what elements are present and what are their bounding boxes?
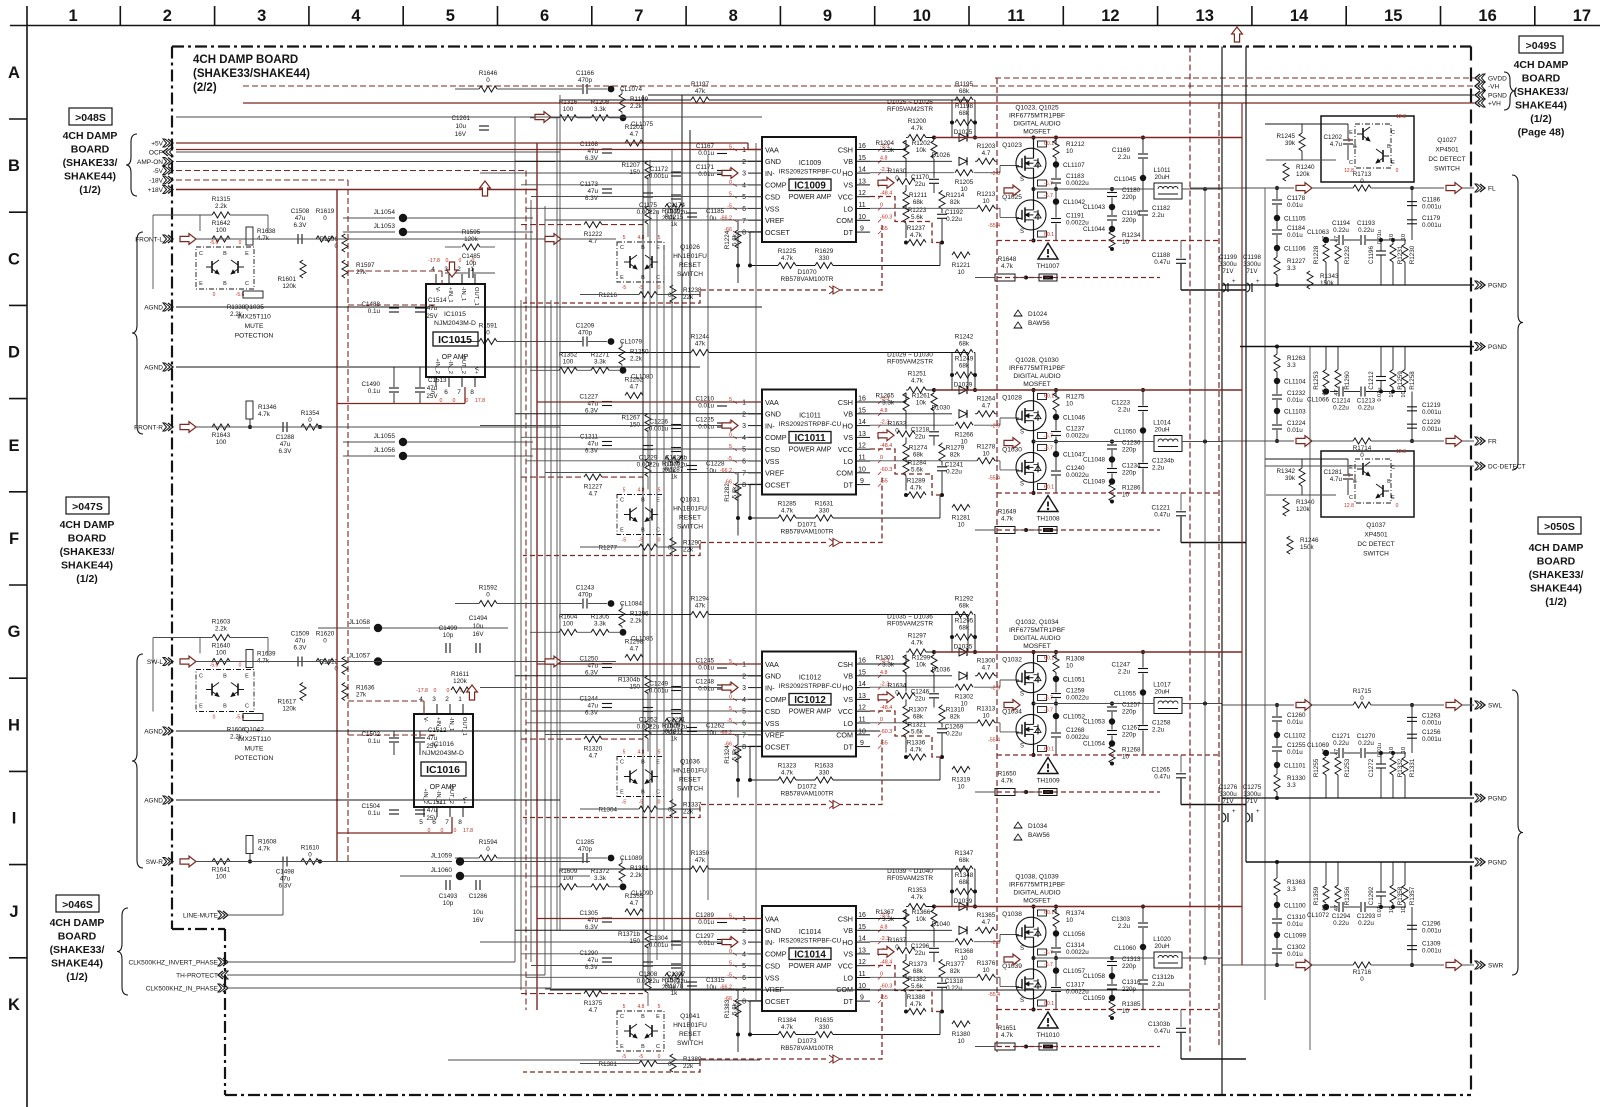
svg-text:82k: 82k <box>950 452 961 459</box>
svg-text:IRS2092STRPBF-CU: IRS2092STRPBF-CU <box>779 938 842 945</box>
pin 13 VS of IC1009 <box>856 184 870 186</box>
svg-text:R1199: R1199 <box>630 96 649 103</box>
pin 5 CSD of IC1011 <box>748 448 762 450</box>
wire COMP pin row <box>521 184 762 186</box>
resistor R1596 vertical <box>342 234 348 252</box>
capacitor C1214 <box>1338 387 1340 397</box>
capacitor C1251 <box>671 709 681 711</box>
svg-text:C: C <box>245 281 249 287</box>
capacitor C1227 electrolytic <box>602 401 612 403</box>
capacitor C1290 electrolytic <box>602 957 612 959</box>
junction CL1101 <box>1274 762 1280 768</box>
svg-text:C1270: C1270 <box>1357 733 1376 740</box>
wire VB row <box>870 413 952 415</box>
svg-text:22k: 22k <box>683 547 694 554</box>
svg-text:CL1050: CL1050 <box>1114 429 1137 436</box>
svg-text:GVDD: GVDD <box>1488 76 1507 83</box>
wire VB row <box>870 160 952 162</box>
svg-text:V+: V+ <box>473 367 479 375</box>
junction CL1084 <box>608 600 615 607</box>
svg-text:R1641: R1641 <box>212 867 231 874</box>
svg-text:5: 5 <box>658 235 661 241</box>
capacitor C1180 <box>1107 192 1117 194</box>
svg-text:R1373: R1373 <box>909 961 928 968</box>
svg-text:R1340: R1340 <box>1296 499 1315 506</box>
svg-text:10: 10 <box>957 522 965 529</box>
ruler left vertical line <box>26 6 28 1107</box>
wire PGND out3 <box>1222 797 1474 799</box>
resistor R1635 <box>815 1032 833 1038</box>
svg-text:0.01u: 0.01u <box>1287 951 1303 958</box>
svg-text:47u: 47u <box>587 188 598 195</box>
junction CL1050 <box>1140 427 1146 433</box>
svg-text:MOSFET: MOSFET <box>1023 381 1050 388</box>
svg-text:-55.4: -55.4 <box>988 992 1000 998</box>
svg-text:R1601: R1601 <box>277 276 296 283</box>
svg-text:C1232: C1232 <box>1287 390 1306 397</box>
pin 8 OCSET of IC1014 <box>748 1000 762 1002</box>
svg-text:K: K <box>8 996 20 1014</box>
pin 15 VB of IC1014 <box>856 929 870 931</box>
svg-text:R1289: R1289 <box>907 478 926 485</box>
capacitor C1246 <box>929 693 939 695</box>
transistor pair Q1042 mute protection <box>196 670 254 712</box>
svg-text:(SHAKE33/: (SHAKE33/ <box>63 157 118 169</box>
capacitor C1229 <box>1407 423 1417 425</box>
svg-text:2.2k: 2.2k <box>215 626 228 633</box>
svg-text:C1218: C1218 <box>911 427 930 434</box>
svg-text:R1631: R1631 <box>815 501 834 508</box>
svg-text:60.1: 60.1 <box>1044 747 1054 753</box>
svg-text:R1201: R1201 <box>625 124 644 131</box>
svg-text:IMX25T110: IMX25T110 <box>237 314 271 321</box>
capacitor C1243 <box>582 599 584 609</box>
svg-text:D: D <box>8 344 20 362</box>
wire COMP pin row <box>521 436 762 438</box>
wire LINE-MUTE <box>227 914 283 916</box>
resistor R1380 <box>952 1021 970 1027</box>
svg-text:9: 9 <box>860 226 864 233</box>
svg-text:4.8: 4.8 <box>880 924 888 930</box>
svg-text:10: 10 <box>957 269 965 276</box>
wire CSH row <box>870 149 906 151</box>
svg-text:0.001u: 0.001u <box>1422 409 1442 416</box>
svg-text:CL1059: CL1059 <box>1083 995 1106 1002</box>
wire FL segment <box>1190 187 1222 189</box>
svg-text:0.001u: 0.001u <box>649 173 669 180</box>
pin 5 +IN_2 of IC1015 <box>435 377 437 387</box>
svg-text:C1209: C1209 <box>576 323 595 330</box>
svg-text:FRONT-L: FRONT-L <box>135 237 163 244</box>
svg-text:CL1043: CL1043 <box>1083 204 1106 211</box>
capacitor C1169 <box>1138 153 1148 155</box>
bus vertical -18V mute x348 dashed <box>347 180 349 862</box>
resistor R1716 <box>1353 962 1371 968</box>
svg-text:R1649: R1649 <box>998 509 1017 516</box>
svg-text:0.47u: 0.47u <box>1154 774 1170 781</box>
svg-text:10p: 10p <box>443 632 454 639</box>
wire OCSET vertical <box>738 745 762 747</box>
svg-text:(1/2): (1/2) <box>1545 596 1567 608</box>
svg-text:C1271: C1271 <box>1332 733 1351 740</box>
ruler top tick 1 <box>119 6 121 26</box>
svg-text:R1595: R1595 <box>462 229 481 236</box>
svg-text:10: 10 <box>1401 234 1407 240</box>
capacitor C1296 <box>1407 924 1417 926</box>
svg-text:7: 7 <box>742 732 746 739</box>
svg-text:S: S <box>1020 177 1024 183</box>
pin 10 COM of IC1014 <box>856 988 870 990</box>
resistor R1348 <box>955 889 973 895</box>
svg-text:6.3V: 6.3V <box>279 448 293 455</box>
svg-text:-48.4: -48.4 <box>880 960 892 966</box>
svg-text:IRF6775MTR1PBF: IRF6775MTR1PBF <box>1009 113 1065 120</box>
svg-text:47u: 47u <box>427 807 438 814</box>
resistor R1611 <box>451 687 469 693</box>
wire HO row <box>870 686 954 688</box>
svg-text:B: B <box>1387 479 1391 485</box>
svg-text:71V: 71V <box>1246 268 1258 275</box>
svg-text:0.001u: 0.001u <box>1422 719 1442 726</box>
svg-text:C1303b: C1303b <box>1148 1021 1171 1028</box>
pin 4 V- of IC1015 <box>435 274 437 284</box>
capacitor C1211 electrolytic <box>602 441 612 443</box>
svg-text:0.01u: 0.01u <box>1287 202 1303 209</box>
svg-text:RB578VAM100TR: RB578VAM100TR <box>781 529 834 536</box>
svg-text:0.22u: 0.22u <box>946 216 962 223</box>
svg-text:10p: 10p <box>466 260 477 267</box>
resistor R1227 <box>584 474 602 480</box>
resistor R1643 <box>212 424 230 430</box>
svg-text:R1250: R1250 <box>630 349 649 356</box>
capacitor C1175 <box>643 192 653 194</box>
svg-text:JL1053: JL1053 <box>374 223 396 230</box>
svg-text:VCC: VCC <box>838 707 853 716</box>
jumper JL1055 <box>399 438 407 446</box>
svg-text:R1356: R1356 <box>1344 886 1351 905</box>
svg-text:4.8: 4.8 <box>638 488 645 494</box>
svg-text:0: 0 <box>239 240 242 246</box>
svg-text:Q1038: Q1038 <box>1002 911 1022 918</box>
ruler left tick C/D <box>9 304 27 306</box>
pin 9 DT of IC1011 <box>856 484 870 486</box>
capacitor C1194 <box>1338 235 1340 245</box>
svg-text:C1180: C1180 <box>1122 187 1141 194</box>
wire IN- pin row <box>480 172 738 174</box>
svg-text:0.22u: 0.22u <box>1358 920 1374 927</box>
capacitor C1172 <box>671 171 681 173</box>
junction CL1107 <box>1053 161 1059 167</box>
capacitor C1167 <box>717 149 727 151</box>
junction CL1079 <box>608 338 615 345</box>
junction CL1044 <box>1109 226 1115 232</box>
svg-text:CL1105: CL1105 <box>1284 216 1306 223</box>
ruler left tick B/C <box>9 211 27 213</box>
svg-text:2: 2 <box>742 673 746 680</box>
capacitor C1498 electrolytic <box>282 857 284 867</box>
svg-text:-55: -55 <box>880 479 888 485</box>
resistor R1350 <box>691 866 709 872</box>
svg-text:C: C <box>656 1044 660 1050</box>
svg-text:IC1009: IC1009 <box>794 181 826 192</box>
svg-text:0.0022u: 0.0022u <box>665 462 688 469</box>
svg-text:(1/2): (1/2) <box>76 573 98 585</box>
svg-text:47u: 47u <box>280 441 291 448</box>
svg-text:POWER AMP: POWER AMP <box>789 963 832 970</box>
resistor R1199 vertical <box>619 94 625 112</box>
svg-text:S: S <box>1020 998 1024 1004</box>
resistor R1620 <box>316 659 334 665</box>
svg-text:1: 1 <box>742 662 746 669</box>
svg-text:(SHAKE33/SHAKE44): (SHAKE33/SHAKE44) <box>193 68 310 80</box>
svg-text:14: 14 <box>858 419 866 426</box>
capacitor C1488 <box>389 307 399 309</box>
svg-text:120k: 120k <box>282 283 297 290</box>
svg-text:C: C <box>199 674 203 680</box>
pin 14 HO of IC1014 <box>856 941 870 943</box>
resistor R1634 <box>897 693 915 699</box>
svg-text:JL1055: JL1055 <box>374 433 396 440</box>
svg-text:R1610: R1610 <box>301 845 320 852</box>
svg-text:10: 10 <box>858 728 866 735</box>
capacitor C1170 <box>929 178 939 180</box>
resistor R1311 <box>665 719 683 725</box>
svg-text:0.01u: 0.01u <box>1287 397 1303 404</box>
resistor R1231 vertical <box>1390 244 1396 262</box>
resistor R1619 <box>316 236 334 242</box>
svg-text:1: 1 <box>742 147 746 154</box>
svg-text:HO: HO <box>842 421 853 430</box>
svg-text:0: 0 <box>486 77 490 84</box>
svg-text:17: 17 <box>1573 7 1591 25</box>
wire cap cluster dashed 2 <box>348 734 436 736</box>
svg-text:0.01u: 0.01u <box>698 150 714 157</box>
svg-text:R1253: R1253 <box>1313 371 1320 390</box>
pin 2 -IN_1 of IC1016 <box>449 704 451 714</box>
wire VREF pin row <box>545 988 762 990</box>
svg-text:R1308: R1308 <box>1066 656 1085 663</box>
svg-text:0.001u: 0.001u <box>1422 948 1442 955</box>
svg-text:POTECTION: POTECTION <box>235 755 274 762</box>
svg-text:VCC: VCC <box>838 962 853 971</box>
svg-text:VSS: VSS <box>765 204 780 213</box>
capacitor C1509 electrolytic <box>297 657 299 667</box>
svg-text:R1388: R1388 <box>907 994 926 1001</box>
svg-text:R1357: R1357 <box>1409 886 1416 905</box>
svg-text:0.0022u: 0.0022u <box>637 978 660 985</box>
svg-text:S: S <box>1020 744 1024 750</box>
svg-text:150: 150 <box>629 422 640 429</box>
svg-text:R1347: R1347 <box>955 850 974 857</box>
transistor Q1034 <box>1016 714 1046 744</box>
svg-text:D1030: D1030 <box>931 405 950 412</box>
svg-text:1: 1 <box>470 266 474 273</box>
resistor R1315 <box>212 212 230 218</box>
svg-text:0: 0 <box>658 1054 661 1060</box>
brace SW group <box>132 654 143 868</box>
wire FRONT-L input <box>196 238 616 240</box>
svg-text:C1296: C1296 <box>1422 920 1441 927</box>
svg-text:+: + <box>1256 279 1260 285</box>
red arrow output R1716 <box>1296 960 1312 971</box>
svg-text:10: 10 <box>982 198 990 205</box>
svg-text:0.001u: 0.001u <box>1422 927 1442 934</box>
resistor R1638 vertical <box>246 227 253 245</box>
resistor R1612 vertical <box>342 657 348 675</box>
resistor R1198 <box>955 120 973 126</box>
svg-text:FL: FL <box>1488 186 1496 193</box>
svg-text:IRF6775MTR1PBF: IRF6775MTR1PBF <box>1009 882 1065 889</box>
svg-text:22k: 22k <box>683 294 694 301</box>
capacitor C1224 <box>1272 424 1282 426</box>
svg-text:4.7: 4.7 <box>630 384 639 391</box>
pin 7 OUT_2 of IC1015 <box>461 377 463 387</box>
svg-text:POTECTION: POTECTION <box>235 333 274 340</box>
svg-text:0: 0 <box>1396 503 1399 509</box>
svg-text:DIGITAL AUDIO: DIGITAL AUDIO <box>1013 890 1060 897</box>
pin 3 +IN_1 of IC1016 <box>436 704 438 714</box>
resistor R1225 <box>778 263 796 269</box>
svg-text:+18V: +18V <box>148 187 164 194</box>
svg-text:R1234: R1234 <box>1122 232 1141 239</box>
wire SW-R input <box>196 861 448 863</box>
capacitor C1317 <box>1051 987 1061 989</box>
svg-text:>046S: >046S <box>62 899 93 911</box>
svg-text:47k: 47k <box>695 603 706 610</box>
wire VAA feed <box>176 149 748 151</box>
svg-text:C1514: C1514 <box>428 297 447 304</box>
svg-text:12.8: 12.8 <box>1344 168 1354 174</box>
svg-text:E: E <box>620 275 624 281</box>
svg-text:0.001u: 0.001u <box>1422 736 1442 743</box>
svg-text:39k: 39k <box>1285 140 1296 147</box>
svg-text:4.7k: 4.7k <box>1001 263 1014 270</box>
svg-text:R1620: R1620 <box>316 631 335 638</box>
svg-text:5.6k: 5.6k <box>911 729 924 736</box>
svg-text:0.01u: 0.01u <box>1287 232 1303 239</box>
svg-text:R1612: R1612 <box>319 659 338 666</box>
svg-text:VB: VB <box>843 410 853 419</box>
svg-text:RF05VAM2STR: RF05VAM2STR <box>887 359 933 366</box>
ruler top tick 13 <box>1251 6 1253 26</box>
ruler left tick D/E <box>9 398 27 400</box>
svg-text:-6.7: -6.7 <box>1044 446 1053 452</box>
ruler top tick 10 <box>968 6 970 26</box>
svg-text:0: 0 <box>658 800 661 806</box>
red arrow FRONT-R <box>180 422 196 433</box>
svg-text:JL1059: JL1059 <box>431 853 453 860</box>
svg-text:R1351: R1351 <box>630 865 649 872</box>
svg-text:LO: LO <box>843 973 853 982</box>
svg-text:OCP: OCP <box>149 150 163 157</box>
wire CLK in phase <box>227 987 551 989</box>
svg-text:68k: 68k <box>959 603 970 610</box>
resistor R1646 <box>479 86 497 92</box>
svg-text:C1313: C1313 <box>1122 956 1141 963</box>
pin 13 VS of IC1011 <box>856 436 870 438</box>
svg-text:C1226: C1226 <box>649 419 668 426</box>
resistor R1310 vertical <box>939 706 945 724</box>
svg-text:9: 9 <box>823 7 832 25</box>
svg-text:68k: 68k <box>959 341 970 348</box>
svg-text:R1267: R1267 <box>621 415 640 422</box>
svg-text:470p: 470p <box>578 330 593 337</box>
svg-text:4CH DAMP: 4CH DAMP <box>63 130 118 142</box>
transistor Q1023 <box>1016 148 1046 178</box>
svg-text:0.01u: 0.01u <box>698 686 714 693</box>
resistor R1595 <box>462 244 480 250</box>
pin 7 VREF of IC1009 <box>748 219 762 221</box>
svg-text:R1198: R1198 <box>955 103 974 110</box>
svg-text:3.3k: 3.3k <box>882 400 895 407</box>
wire GND pin row <box>515 675 762 677</box>
svg-text:C1256: C1256 <box>1422 729 1441 736</box>
svg-text:(1/2): (1/2) <box>79 184 101 196</box>
diode D1035 <box>959 648 967 656</box>
svg-text:47k: 47k <box>695 857 706 864</box>
svg-text:R1637: R1637 <box>888 937 907 944</box>
svg-text:1: 1 <box>742 916 746 923</box>
svg-text:15: 15 <box>858 407 866 414</box>
svg-text:MOSFET: MOSFET <box>1023 129 1050 136</box>
resistor R1630 <box>897 178 915 184</box>
transistor pair Q1026 reset switch <box>617 242 664 282</box>
capacitor C1192 <box>937 213 947 215</box>
svg-text:5: 5 <box>742 709 746 716</box>
resistor R1351 vertical <box>619 863 625 881</box>
svg-text:DC-DETECT: DC-DETECT <box>1488 464 1526 471</box>
capacitor C1191 <box>1051 218 1061 220</box>
svg-text:2.2u: 2.2u <box>1118 154 1131 161</box>
svg-text:R1332: R1332 <box>1397 758 1404 777</box>
svg-text:C1494: C1494 <box>469 615 488 622</box>
svg-text:VAA: VAA <box>765 914 779 923</box>
svg-text:1k: 1k <box>671 990 679 997</box>
svg-text:XP4501: XP4501 <box>1364 532 1388 539</box>
svg-text:B: B <box>8 157 20 175</box>
svg-text:3.3k: 3.3k <box>882 662 895 669</box>
svg-text:0.1u: 0.1u <box>368 738 381 745</box>
ruler left tick I/J <box>9 864 27 866</box>
svg-text:0.22u: 0.22u <box>1358 227 1374 234</box>
svg-text:4CH DAMP: 4CH DAMP <box>60 519 115 531</box>
svg-text:-5: -5 <box>622 285 627 291</box>
svg-text:D1039: D1039 <box>954 898 973 905</box>
svg-text:C1269: C1269 <box>945 724 964 731</box>
wire VSS pin row <box>526 722 762 724</box>
inductor L1011 <box>1154 183 1182 199</box>
svg-text:5.6k: 5.6k <box>911 467 924 474</box>
red arrow mosfet gate row <box>1004 438 1020 449</box>
capacitor C1247 <box>1138 668 1148 670</box>
svg-text:4.7k: 4.7k <box>257 235 270 242</box>
svg-text:5: 5 <box>623 488 626 494</box>
svg-text:R1636: R1636 <box>356 685 375 692</box>
svg-text:FR: FR <box>1488 439 1497 446</box>
svg-text:0.0022u: 0.0022u <box>665 209 688 216</box>
svg-text:120k: 120k <box>453 678 468 685</box>
jumper JL1058 <box>374 624 382 632</box>
svg-text:COM: COM <box>836 731 853 740</box>
pin 9 DT of IC1014 <box>856 1000 870 1002</box>
svg-text:R1606: R1606 <box>227 727 246 734</box>
resistor R1641 <box>212 859 230 865</box>
svg-text:0.01u: 0.01u <box>1377 230 1383 244</box>
bus vertical maroon dashed x997 <box>996 78 998 1052</box>
pin 11 LO of IC1014 <box>856 977 870 979</box>
svg-text:R1634: R1634 <box>888 683 907 690</box>
connector pin FR out <box>1480 437 1485 445</box>
